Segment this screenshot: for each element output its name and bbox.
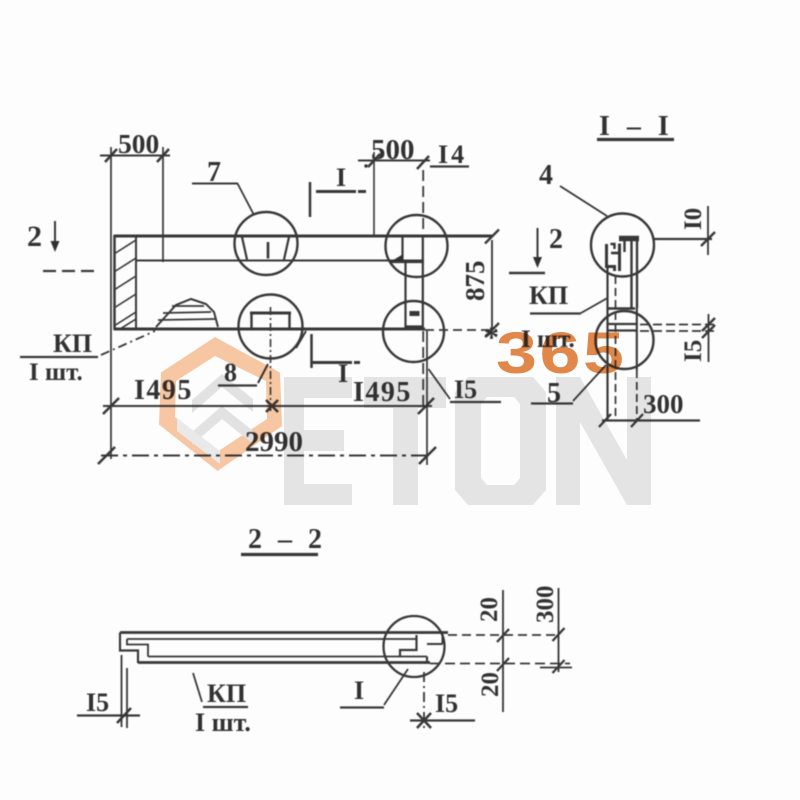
chamfer triangle bbox=[390, 255, 403, 263]
svg-text:I0: I0 bbox=[680, 208, 707, 230]
detail circle 1-1 top bbox=[591, 214, 654, 277]
8 underline bbox=[218, 384, 257, 386]
right dims: vertical 1 bbox=[502, 590, 504, 712]
left dim 15: extensions bbox=[121, 655, 123, 727]
detail circle bottom-right bbox=[383, 301, 444, 362]
label 7 leader bbox=[238, 184, 255, 216]
ticks bbox=[702, 318, 715, 338]
joint lines bbox=[608, 307, 635, 310]
bar inner dashed bbox=[615, 276, 617, 420]
svg-text:I5: I5 bbox=[454, 375, 477, 404]
section mark 1 top: horizontal bbox=[316, 190, 366, 193]
letter N bbox=[556, 377, 651, 505]
right dim 15: extension bbox=[423, 672, 425, 731]
detail circle top-right bbox=[386, 215, 448, 277]
label 4 leader bbox=[560, 186, 607, 216]
8 slash bbox=[258, 364, 268, 383]
detail circle bottom-center bbox=[239, 295, 303, 359]
extension line at 500 bbox=[162, 147, 164, 262]
svg-text:I шт.: I шт. bbox=[29, 359, 83, 386]
stray slash bbox=[296, 331, 306, 348]
label KP 2-2: leader bbox=[193, 673, 202, 702]
right dim 15: line bbox=[410, 719, 475, 721]
5 leader bbox=[573, 365, 606, 401]
hook top bar bbox=[619, 236, 639, 242]
extension line far left bbox=[110, 147, 112, 459]
dim 10 horizontal ext bbox=[654, 238, 712, 240]
dim line 500 left bbox=[100, 155, 170, 157]
tick bbox=[98, 447, 115, 464]
bottom dashed extension bbox=[430, 663, 570, 665]
dim 875: vertical bbox=[491, 240, 493, 330]
dim 15 vertical bbox=[708, 314, 710, 362]
title underline bbox=[597, 138, 674, 141]
table shape in bottom-center circle bbox=[250, 312, 291, 315]
svg-text:2 – 2: 2 – 2 bbox=[248, 524, 327, 555]
section mark 1 top: vertical bbox=[309, 182, 312, 217]
tick bbox=[418, 398, 434, 414]
svg-text:I5: I5 bbox=[435, 689, 458, 718]
section mark 1 bottom: horizontal bbox=[312, 361, 360, 364]
left end inner bbox=[127, 639, 148, 657]
tick bbox=[419, 447, 436, 464]
bottom inner line bbox=[148, 656, 427, 658]
section trace dashed upper bbox=[422, 170, 424, 234]
extension line 500 right bbox=[373, 152, 375, 236]
svg-text:500: 500 bbox=[118, 128, 159, 159]
top dashed extension bbox=[448, 634, 557, 636]
slot horizontal bbox=[390, 261, 424, 263]
right dims: vertical 2 bbox=[558, 588, 560, 672]
center tick X bbox=[266, 400, 278, 412]
panel end edge bbox=[422, 236, 424, 330]
top outer edge bbox=[120, 631, 448, 634]
tick bbox=[368, 154, 380, 167]
centerline through bottom-center circle bbox=[270, 307, 272, 412]
tick bbox=[701, 232, 715, 246]
joint extension dashes bbox=[640, 324, 716, 326]
left end outer bbox=[120, 633, 138, 664]
panel top edge bbox=[114, 235, 492, 238]
rib left edge bbox=[113, 235, 116, 330]
letter O bbox=[455, 377, 546, 505]
svg-text:2: 2 bbox=[27, 220, 42, 253]
tick bbox=[485, 323, 499, 337]
svg-text:I4: I4 bbox=[438, 140, 467, 169]
tick bbox=[103, 398, 119, 414]
svg-text:I: I bbox=[338, 359, 348, 388]
lower short ext bbox=[540, 667, 572, 669]
svg-text:I шт.: I шт. bbox=[521, 326, 575, 353]
ticks bbox=[599, 414, 643, 427]
flag bbox=[509, 272, 545, 275]
gray chevron band 2 bbox=[192, 406, 253, 445]
watermark layer bbox=[159, 321, 651, 505]
right extension vertical bbox=[426, 331, 428, 465]
svg-text:КП: КП bbox=[53, 329, 92, 358]
svg-text:*: * bbox=[484, 321, 499, 354]
tick X bbox=[417, 713, 431, 728]
arrow bbox=[537, 228, 539, 258]
svg-text:I5: I5 bbox=[680, 340, 707, 362]
gray chevron band 1 bbox=[192, 374, 253, 413]
svg-text:I495: I495 bbox=[134, 375, 193, 406]
panel bottom edge bbox=[114, 328, 425, 331]
ticks bbox=[553, 628, 565, 673]
top inner line bbox=[127, 638, 416, 640]
KP leader bbox=[581, 298, 608, 313]
trapezoid groove in top-center circle bbox=[242, 237, 289, 260]
hatched mound bbox=[156, 299, 218, 327]
KP underline bbox=[20, 356, 98, 358]
tick bbox=[117, 708, 131, 723]
ink layer bbox=[20, 111, 716, 737]
right end slot verticals bbox=[401, 236, 403, 262]
detail circle top-center bbox=[235, 212, 298, 275]
KP underline bbox=[203, 706, 248, 708]
1 leader bbox=[384, 669, 408, 705]
15 leader bbox=[429, 369, 451, 399]
detail circle 1-1 bottom bbox=[596, 311, 654, 369]
svg-text:20: 20 bbox=[477, 672, 504, 697]
bar right edge lower bbox=[636, 308, 638, 370]
tick bbox=[157, 149, 169, 162]
KP leader bbox=[101, 331, 155, 355]
svg-text:I шт.: I шт. bbox=[195, 708, 251, 737]
svg-text:4: 4 bbox=[539, 160, 553, 191]
tick bbox=[417, 156, 429, 169]
svg-text:300: 300 bbox=[532, 586, 559, 624]
svg-text:КП: КП bbox=[207, 679, 246, 708]
dim line 1495x2 bbox=[103, 405, 432, 407]
svg-text:I5: I5 bbox=[86, 688, 109, 717]
label 7 underline bbox=[192, 183, 238, 185]
svg-text:500: 500 bbox=[371, 134, 415, 166]
dim line 2990 bbox=[101, 455, 433, 457]
hexagon logo ring bbox=[159, 337, 282, 471]
bottom edge dashed extension bbox=[425, 329, 497, 331]
right end Z-joint bbox=[400, 635, 417, 657]
hook left parts bbox=[607, 244, 615, 271]
svg-text:2: 2 bbox=[549, 224, 563, 255]
bar left edge bbox=[606, 268, 608, 420]
svg-text:2990: 2990 bbox=[245, 426, 303, 458]
gray inner lower band bbox=[177, 418, 220, 464]
detail circle 2-2 bbox=[384, 616, 445, 677]
title underline bbox=[241, 553, 318, 556]
slot inner vertical bbox=[404, 262, 406, 329]
dim 10 vertical bbox=[707, 206, 709, 255]
KP underline bbox=[530, 312, 581, 314]
slot sill bbox=[406, 325, 423, 327]
panel band bottom line bbox=[136, 260, 424, 262]
tick bbox=[485, 230, 499, 244]
svg-text:КП: КП bbox=[529, 281, 568, 310]
svg-text:8: 8 bbox=[224, 358, 237, 387]
14 underline bbox=[430, 165, 469, 167]
section mark 1 bottom: vertical bbox=[310, 334, 313, 368]
rib hatching bbox=[114, 240, 136, 329]
tick bbox=[105, 149, 117, 162]
svg-text:I: I bbox=[354, 676, 364, 705]
letter T bbox=[364, 377, 446, 505]
dot bbox=[364, 164, 367, 167]
15 underline bbox=[450, 401, 501, 403]
1 underline bbox=[340, 706, 384, 708]
section mark 2 left: arrow bbox=[54, 221, 56, 244]
5 underline bbox=[531, 402, 573, 404]
dim 300 line bbox=[602, 419, 700, 421]
ticks bbox=[497, 629, 509, 671]
svg-text:I495: I495 bbox=[353, 377, 412, 408]
groove center pin bbox=[267, 242, 270, 259]
svg-text:20: 20 bbox=[476, 597, 503, 622]
svg-text:I: I bbox=[336, 163, 346, 192]
dim line 500 right bbox=[358, 160, 430, 162]
rib right edge bbox=[135, 236, 137, 329]
svg-text:875: 875 bbox=[460, 261, 490, 302]
left dim 15: line bbox=[77, 714, 140, 716]
hook right wall bbox=[632, 238, 638, 308]
bottom outer edge bbox=[138, 661, 430, 664]
section trace dashed lower bbox=[422, 331, 424, 406]
cast-in dash bbox=[410, 311, 420, 316]
letter E bbox=[284, 377, 352, 505]
svg-text:300: 300 bbox=[643, 389, 684, 419]
svg-text:I – I: I – I bbox=[599, 111, 674, 142]
section mark 2 left: flag bbox=[43, 270, 95, 272]
